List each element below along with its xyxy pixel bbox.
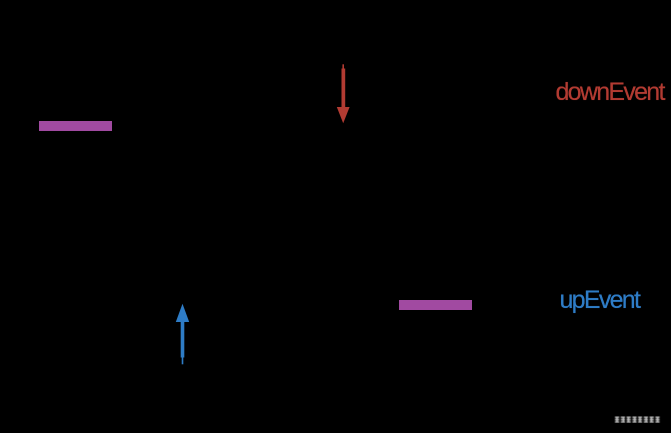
arrowhead [176,304,189,322]
shaft [181,321,185,358]
purple bar right (up touch slot) [399,300,472,310]
shaft [342,69,346,109]
upEvent label [560,288,640,313]
blue up arrow [176,304,189,365]
arrowhead [337,107,350,123]
top nub [342,64,344,70]
watermark 稀土掘金技术社区 (tiny pseudo-glyphs) [615,417,660,422]
downEvent label [556,80,664,105]
bottom nub [182,357,184,364]
purple bar left (down touch slot) [39,121,112,131]
